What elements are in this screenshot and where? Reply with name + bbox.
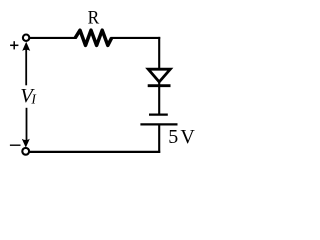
diode D (triangle, cathode down) [148,69,170,82]
resistor R (zigzag) [75,30,111,45]
terminal circle + (top-left input) [23,35,29,41]
terminal circle - (bottom-left input) [22,148,29,155]
wire from battery to bottom-right corner [158,126,160,153]
svg-text:R: R [88,8,100,29]
battery 5V long (bottom) plate [140,123,177,125]
voltage arrowhead up (toward + terminal) [22,42,30,51]
label - [10,144,21,146]
wire from diode cathode to battery [158,87,160,115]
voltage arrowhead down (toward - terminal) [22,139,30,148]
wire top segment from + terminal to resistor [30,37,77,39]
diode cathode bar [148,84,171,87]
wire diode apex to cathode bar [158,80,160,86]
wire top segment from resistor to top-right corner [111,37,161,39]
wire right vertical from corner down to diode anode [158,37,160,70]
wire bottom segment from - terminal to bottom-right corner [30,151,161,153]
svg-text:V: V [180,126,195,148]
wire left lower segment (arrow shaft) [26,108,28,142]
label + [10,41,18,49]
svg-text:5: 5 [168,126,178,148]
battery 5V short (top) plate [149,113,168,115]
wire left upper segment (arrow shaft) [25,48,27,86]
